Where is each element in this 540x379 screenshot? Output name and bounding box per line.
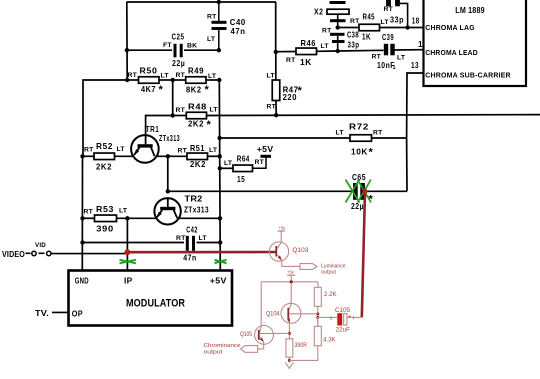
svg-text:2K2: 2K2 (190, 160, 206, 169)
svg-text:Luminance: Luminance (321, 263, 346, 269)
svg-text:RT: RT (255, 159, 265, 166)
svg-text:2.2K: 2.2K (324, 291, 337, 298)
wire C42 row (83, 242, 185, 244)
red wire VIDEO junction to Q103 base (128, 251, 277, 254)
capacitor C25 (174, 44, 177, 58)
resistor 4.3K (314, 326, 321, 346)
wire TR1 collector riser (146, 116, 173, 136)
svg-text:VIDEO: VIDEO (2, 249, 25, 259)
svg-text:R50: R50 (140, 67, 158, 76)
node R51 right junction (218, 154, 222, 158)
capacitor C42 (186, 236, 189, 251)
svg-text:390R: 390R (295, 342, 308, 349)
svg-text:13: 13 (411, 61, 419, 70)
wire IP column (R53 to modulator IP pin) (126, 218, 128, 270)
svg-text:LM 1889: LM 1889 (455, 5, 485, 15)
svg-text:TV.: TV. (35, 308, 49, 318)
wire TR1 emitter to R51 (157, 155, 188, 157)
svg-text:+5v: +5v (279, 226, 287, 231)
svg-text:C42: C42 (186, 225, 198, 234)
svg-text:LT: LT (207, 36, 216, 43)
node R72 left junction (217, 136, 221, 140)
red node emitter junction (288, 332, 291, 335)
svg-text:RT: RT (128, 72, 138, 79)
svg-text:RT: RT (176, 107, 186, 114)
wire TR2 emitter to right column (178, 217, 220, 219)
node R53 right junction (IP branch) (125, 216, 129, 220)
wire VIDEO to IP junction (51, 253, 128, 255)
resistor R46 (276, 51, 296, 53)
svg-text:R64: R64 (237, 154, 250, 163)
svg-text:LT: LT (119, 208, 128, 215)
resistor R49 (173, 79, 186, 81)
svg-text:R48: R48 (188, 102, 207, 111)
svg-text:1K: 1K (300, 58, 312, 67)
svg-text:+5v: +5v (287, 270, 295, 275)
transistor TR1 (131, 135, 159, 163)
green cut mark on +5V wire (215, 260, 227, 263)
node R45-C37 junction (405, 25, 409, 29)
resistor R51 (187, 153, 208, 160)
node TR1 right junction (166, 154, 170, 158)
node C42 left junction (80, 240, 84, 244)
node R49 right junction (217, 78, 221, 82)
red node junction at IP (124, 249, 130, 255)
red wire rail to 2.2K (317, 282, 319, 288)
svg-text:LT: LT (321, 43, 330, 50)
svg-text:RT: RT (207, 13, 217, 20)
red transistor Q105 (255, 326, 274, 345)
svg-text:LT: LT (210, 107, 219, 114)
svg-text:R72: R72 (349, 123, 369, 132)
node junction C25 left (125, 48, 129, 52)
node junction R50 left (125, 78, 129, 82)
svg-text:CHROMA LEAD: CHROMA LEAD (425, 48, 478, 57)
svg-text:LT: LT (224, 160, 233, 167)
svg-text:47n: 47n (183, 253, 196, 262)
svg-text:C40: C40 (230, 18, 246, 27)
svg-text:RT: RT (322, 28, 332, 35)
svg-text:RT: RT (84, 209, 94, 216)
modulator box (69, 271, 233, 326)
node C42 right junction (218, 240, 222, 244)
wire top-right column to R46 row (275, 2, 277, 52)
power +5V supply at R64 (253, 158, 267, 169)
red node junction at C65 (362, 189, 367, 194)
wire left column (R50 corner to GND pin) (81, 156, 83, 270)
red wire 390R to ground (288, 357, 290, 362)
node X2-C38 junction (336, 25, 340, 29)
node R48 left junction (171, 113, 175, 117)
svg-text:FT: FT (163, 42, 172, 49)
svg-text:C25: C25 (172, 33, 185, 42)
svg-text:R45: R45 (363, 13, 376, 22)
capacitor C38 (330, 33, 345, 36)
svg-text:4.3K: 4.3K (323, 336, 336, 343)
svg-text:*: * (207, 119, 212, 131)
red wire rail to Q105 base (260, 282, 262, 326)
svg-text:C39: C39 (382, 33, 394, 42)
svg-text:RT: RT (384, 6, 394, 13)
red wire C105 to thick bypass wire (347, 316, 362, 318)
red node Q104 collector junction (290, 280, 293, 283)
svg-text:LT: LT (199, 235, 208, 242)
wire chip pin13 column (407, 73, 423, 191)
red node base divider junction (316, 313, 319, 316)
svg-text:47n: 47n (231, 27, 246, 36)
red wire Q104 emitter to 390R (288, 323, 290, 339)
wire TR1 base to TR2 riser (167, 156, 169, 191)
svg-text:Q105: Q105 (240, 331, 252, 338)
svg-text:1K: 1K (362, 33, 371, 42)
node R53 left junction (80, 216, 84, 220)
svg-text:CHROMA SUB-CARRIER: CHROMA SUB-CARRIER (425, 71, 511, 80)
svg-text:*: * (369, 147, 374, 159)
svg-text:CHROMA LAG: CHROMA LAG (425, 23, 475, 32)
svg-text:+5V: +5V (257, 144, 274, 154)
svg-text:RT: RT (372, 54, 382, 61)
node R64 left junction (218, 166, 222, 170)
wire C38 junction to C39 (338, 49, 384, 52)
red wire 2.2K to junction (317, 306, 319, 326)
resistor R53 (83, 217, 95, 219)
svg-text:Q103: Q103 (292, 247, 309, 254)
IC U1 LM1889 box (424, 0, 527, 86)
svg-text:390: 390 (96, 225, 114, 234)
svg-text:LT: LT (117, 146, 126, 153)
svg-text:+5V: +5V (210, 276, 227, 285)
svg-text:8K2: 8K2 (186, 86, 202, 95)
svg-text:OP: OP (72, 310, 83, 319)
svg-text:LT: LT (209, 147, 218, 154)
resistor 390R (286, 339, 293, 357)
resistor R47 (275, 52, 277, 80)
red wire Q105 emitter to chrominance flag (258, 342, 264, 349)
node R50-R49 junction (171, 78, 175, 82)
wire R48 branch vertical (172, 80, 174, 116)
svg-text:RT: RT (373, 130, 383, 137)
wire top horizontal rail (127, 1, 277, 3)
svg-text:22µ: 22µ (351, 202, 364, 211)
svg-text:15: 15 (237, 175, 245, 184)
svg-text:Q104: Q104 (266, 310, 280, 317)
node R46 left junction (274, 50, 278, 54)
node C40 top junction (217, 0, 221, 4)
svg-text:RT: RT (84, 147, 94, 154)
red transistor Q104 (281, 303, 301, 323)
svg-text:33p: 33p (348, 40, 360, 49)
svg-text:output: output (204, 349, 224, 355)
ground symbol (285, 363, 293, 369)
svg-text:Chrominance: Chrominance (204, 343, 241, 349)
svg-text:output: output (321, 270, 336, 276)
svg-text:4K7: 4K7 (141, 85, 156, 94)
wire left vertical from top rail (126, 2, 128, 80)
red wire 4.3K branch (317, 317, 319, 326)
svg-text:IP: IP (124, 276, 133, 285)
green cross-out mark on C65 right plate (358, 180, 372, 203)
svg-text:RT: RT (176, 72, 186, 79)
capacitor C37 33p top (386, 0, 391, 6)
resistor R72 (220, 137, 350, 139)
svg-text:RT: RT (350, 18, 360, 25)
capacitor C39 (384, 44, 388, 56)
svg-text:VID: VID (35, 242, 46, 249)
svg-text:LT: LT (208, 73, 217, 80)
red wire Q105 collector (273, 332, 289, 334)
capacitor C105 electrolytic (337, 313, 342, 325)
svg-text:LT: LT (161, 73, 170, 80)
wire R50 row left corner (83, 80, 127, 156)
svg-text:*: * (159, 84, 164, 96)
red wire 4.3K to ground rail (289, 346, 317, 361)
red wire C65 bypass vertical (362, 192, 365, 318)
node TR2 right junction (218, 216, 222, 220)
svg-text:C105: C105 (335, 307, 351, 314)
svg-text:220: 220 (283, 93, 297, 102)
resistor R52 (83, 155, 95, 157)
wire right mid column (R49 to +5V pin) (219, 80, 220, 271)
red supply rail wire (261, 281, 318, 283)
svg-text:R53: R53 (96, 205, 114, 214)
svg-text:LT: LT (267, 73, 276, 80)
svg-text:18: 18 (412, 17, 420, 26)
red wire Q103 emitter to luminance flag (282, 260, 300, 266)
resistor R64 (220, 167, 233, 169)
green cross-out mark on C65 left plate (346, 180, 360, 203)
svg-text:ZTx313: ZTx313 (184, 206, 209, 215)
svg-text:2K2: 2K2 (96, 163, 112, 172)
svg-text:R46: R46 (301, 39, 317, 48)
node C25 right junction (217, 48, 221, 52)
svg-text:X2: X2 (314, 7, 324, 16)
svg-text:LT: LT (381, 19, 390, 26)
resistor R48 (173, 115, 187, 117)
resistor R50 (127, 79, 138, 81)
wire chroma feedback row (TR2 collector to C65) (168, 190, 354, 192)
wire R48 output long rail to right edge (207, 114, 540, 117)
svg-text:33p: 33p (390, 16, 404, 25)
svg-text:TR1: TR1 (146, 125, 159, 134)
red node ground junction (288, 359, 291, 362)
svg-text:*: * (298, 85, 303, 97)
capacitor C65 (crossed out) (353, 183, 358, 200)
red wire junction to Q104 base (301, 313, 318, 315)
resistor 2.2K (314, 287, 321, 306)
crystal X2 (330, 1, 346, 4)
svg-text:ZTx313: ZTx313 (159, 134, 180, 143)
node C38 bottom junction (336, 49, 340, 53)
svg-text:22µ: 22µ (172, 59, 185, 68)
capacitor C40 (218, 2, 220, 21)
node R52 left junction (80, 154, 84, 158)
svg-text:R52: R52 (96, 142, 113, 151)
svg-text:RT: RT (267, 104, 277, 111)
svg-text:22uF: 22uF (336, 326, 351, 333)
node TR2 collector junction (166, 189, 170, 193)
transistor TR2 (154, 198, 180, 224)
svg-text:MODULATOR: MODULATOR (126, 297, 185, 309)
svg-text:*: * (205, 84, 210, 96)
wire C25 row (127, 49, 172, 51)
green cut mark on IP wire (120, 260, 137, 264)
svg-text:10K: 10K (351, 148, 368, 157)
svg-text:1: 1 (393, 65, 396, 71)
svg-text:RT: RT (178, 148, 188, 155)
resistor R45 (338, 27, 359, 29)
svg-text:R51: R51 (190, 144, 205, 153)
node R47 bottom junction (274, 113, 278, 117)
svg-text:RT: RT (286, 57, 296, 64)
wire C39 to chip pin 1 (394, 49, 423, 51)
luminance output flag (300, 264, 317, 270)
svg-text:1: 1 (418, 40, 423, 49)
red transistor Q103 (269, 242, 288, 261)
svg-text:R49: R49 (188, 67, 204, 76)
svg-text:2K2: 2K2 (188, 120, 204, 129)
red wire C105 branch (318, 316, 337, 318)
svg-text:C38: C38 (347, 30, 359, 39)
svg-text:GND: GND (75, 276, 89, 285)
svg-text:BK: BK (187, 43, 197, 50)
svg-text:LT: LT (336, 130, 345, 137)
svg-text:TR2: TR2 (185, 193, 203, 203)
chrominance output flag (241, 346, 258, 353)
svg-text:LT: LT (397, 55, 406, 62)
svg-text:RT: RT (176, 235, 186, 242)
